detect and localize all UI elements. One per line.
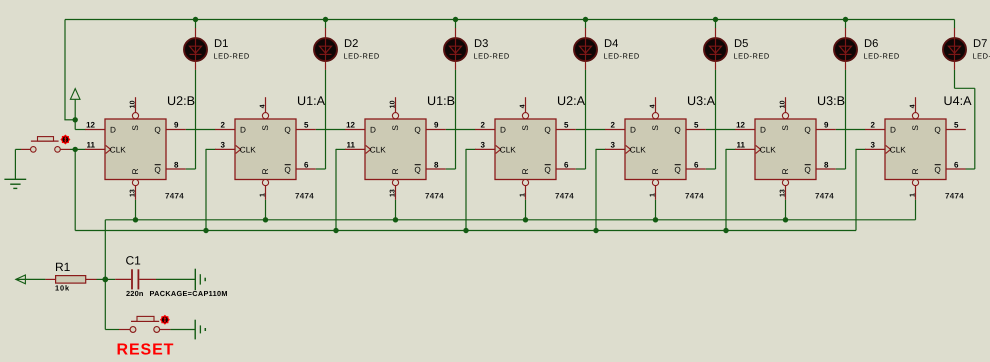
svg-text:U3:A: U3:A (687, 94, 716, 108)
wire clock bus riser to CLK of flip-flop 5 (595, 149, 597, 231)
svg-text:12: 12 (736, 121, 745, 130)
junction top bus at LED D4 (583, 17, 588, 22)
junction clock bus 2 (333, 228, 338, 233)
svg-text:5: 5 (954, 121, 959, 130)
wire Qbar corner to LED column D5 (706, 168, 716, 170)
svg-text:9: 9 (434, 121, 439, 130)
svg-text:D: D (240, 125, 246, 134)
junction RC node (102, 277, 108, 283)
wire Q of flip-flop 2 to D of flip-flop 3 (316, 129, 345, 131)
svg-text:D: D (630, 125, 636, 134)
svg-text:8: 8 (824, 160, 829, 169)
wire RC node to C1 (105, 278, 115, 280)
svg-text:7474: 7474 (165, 191, 184, 200)
wire clock bus riser to CLK of flip-flop 6 (725, 149, 727, 231)
junction clock bus 1 (203, 228, 208, 233)
svg-text:7474: 7474 (295, 191, 314, 200)
svg-text:CLK: CLK (370, 145, 386, 154)
svg-text:2: 2 (611, 121, 616, 130)
wire CLR pin of U1:B to reset bus (395, 200, 397, 220)
svg-text:10: 10 (130, 100, 137, 108)
svg-text:5: 5 (304, 121, 309, 130)
junction reset bus at U1:A (263, 217, 268, 222)
svg-text:D6: D6 (864, 38, 878, 50)
wire Qbar corner to LED column D3 (446, 168, 456, 170)
svg-text:S: S (391, 125, 400, 131)
svg-text:RESET: RESET (117, 342, 175, 359)
push button (clock) (21, 137, 70, 153)
svg-text:D: D (760, 125, 766, 134)
junction top bus at LED D2 (323, 17, 328, 22)
wire button node to pin 11 (70, 148, 86, 150)
svg-text:7474: 7474 (945, 191, 964, 200)
svg-text:7474: 7474 (685, 191, 704, 200)
wire C1 to ground (156, 278, 195, 280)
junction top bus at LED D5 (713, 17, 718, 22)
svg-text:11: 11 (87, 141, 96, 150)
svg-text:6: 6 (954, 160, 959, 169)
input terminal arrow (left) (16, 275, 26, 284)
svg-text:1: 1 (910, 193, 917, 197)
button actuator marker (red) (60, 135, 70, 145)
svg-text:Q: Q (934, 165, 940, 174)
svg-text:Q: Q (804, 125, 810, 134)
svg-text:1: 1 (650, 193, 657, 197)
svg-text:11: 11 (347, 141, 356, 150)
wire LED D5 cathode down to Qbar (715, 70, 717, 169)
svg-text:3: 3 (481, 141, 486, 150)
svg-text:Q: Q (154, 125, 160, 134)
push button (RESET) (119, 316, 170, 332)
svg-text:U2:A: U2:A (557, 94, 586, 108)
ground symbol (C1, rotated) (195, 269, 205, 290)
svg-text:CLK: CLK (760, 145, 776, 154)
junction top bus at LED D1 (193, 17, 198, 22)
flip-flop U2:B (7474) (85, 97, 186, 200)
svg-text:Q: Q (284, 125, 290, 134)
svg-text:220n: 220n (126, 289, 144, 298)
junction reset bus at U2:A (523, 217, 528, 222)
wire top bus to LED D3 (455, 20, 457, 29)
svg-text:U1:A: U1:A (297, 94, 326, 108)
svg-text:Q: Q (414, 165, 420, 174)
svg-text:U1:B: U1:B (427, 94, 455, 108)
svg-text:LED-: LED- (973, 51, 990, 60)
junction reset bus at U1:B (393, 217, 398, 222)
wire ground to button (15, 148, 21, 150)
svg-text:4: 4 (650, 104, 657, 108)
wire top bus to LED D2 (325, 20, 327, 29)
wire RESET button to ground (170, 329, 195, 331)
wire Q of flip-flop 6 to D of flip-flop 7 (836, 129, 865, 131)
svg-text:13: 13 (390, 189, 397, 197)
capacitor C1 (115, 269, 156, 289)
wire clock bus riser to CLK of flip-flop 4 (465, 149, 467, 231)
junction top bus at LED D3 (453, 17, 458, 22)
svg-text:4: 4 (910, 104, 917, 108)
wire Qbar corner to LED column D6 (836, 168, 846, 170)
svg-text:CLK: CLK (890, 145, 906, 154)
svg-text:S: S (261, 125, 270, 131)
wire LED D1 cathode down to Qbar (195, 70, 197, 169)
flip-flop U4:A (7474) (865, 97, 966, 200)
LED D3 (444, 28, 467, 70)
svg-text:CLK: CLK (630, 145, 646, 154)
svg-text:6: 6 (694, 160, 699, 169)
wire node to pin 12 (74, 120, 76, 130)
svg-text:PACKAGE=CAP110M: PACKAGE=CAP110M (150, 289, 228, 298)
svg-text:R: R (781, 168, 790, 174)
svg-text:D3: D3 (474, 38, 488, 50)
flip-flop U1:A (7474) (215, 97, 316, 200)
svg-text:LED-RED: LED-RED (344, 51, 380, 60)
svg-text:Q: Q (544, 125, 550, 134)
svg-text:Q: Q (934, 125, 940, 134)
wire R1 to RC node (97, 278, 106, 280)
wire Qbar corner to LED column D2 (316, 168, 326, 170)
wire Q of flip-flop 5 to D of flip-flop 6 (706, 129, 735, 131)
junction clock bus 3 (463, 228, 468, 233)
svg-text:R1: R1 (55, 260, 71, 274)
wire clock bus riser to CLK of flip-flop 7 (855, 149, 857, 231)
wire Q of flip-flop 4 to D of flip-flop 5 (576, 129, 605, 131)
wire CLR pin of U2:A to reset bus (525, 200, 527, 220)
svg-text:12: 12 (346, 121, 355, 130)
svg-text:CLK: CLK (500, 145, 516, 154)
junction clock bus 5 (723, 228, 728, 233)
svg-text:Q: Q (544, 165, 550, 174)
svg-text:LED-RED: LED-RED (474, 51, 510, 60)
svg-text:4: 4 (260, 104, 267, 108)
svg-text:6: 6 (304, 160, 309, 169)
flip-flop U2:A (7474) (475, 97, 576, 200)
svg-text:Q: Q (674, 165, 680, 174)
svg-text:1: 1 (520, 193, 527, 197)
wire clock bus riser to CLK of flip-flop 2 (205, 149, 207, 231)
svg-text:Q: Q (284, 165, 290, 174)
svg-text:7474: 7474 (425, 191, 444, 200)
wire reset bus drop to RC node (104, 220, 106, 330)
svg-text:13: 13 (130, 189, 137, 197)
svg-text:7474: 7474 (815, 191, 834, 200)
svg-text:C1: C1 (126, 254, 142, 268)
wire top bus left drop to D input node (64, 20, 66, 120)
LED D5 (704, 28, 727, 70)
flip-flop U3:A (7474) (605, 97, 706, 200)
svg-text:12: 12 (86, 121, 95, 130)
wire LED D2 cathode down to Qbar (325, 70, 327, 169)
svg-text:D: D (500, 125, 506, 134)
svg-text:U3:B: U3:B (817, 94, 845, 108)
flip-flop U3:B (7474) (735, 97, 836, 200)
LED D4 (574, 28, 597, 70)
junction top bus at LED D6 (843, 17, 848, 22)
svg-text:U4:A: U4:A (944, 94, 973, 108)
junction clock bus 4 (593, 228, 598, 233)
svg-text:R: R (261, 168, 270, 174)
wire top bus to LED D6 (845, 20, 847, 29)
svg-text:S: S (911, 125, 920, 131)
wire LED D6 cathode down to Qbar (845, 70, 847, 169)
wire clock bus (bus B) (75, 230, 856, 232)
svg-text:S: S (781, 125, 790, 131)
wire CLR pin of U3:B to reset bus (785, 200, 787, 220)
svg-text:D2: D2 (344, 38, 358, 50)
svg-text:D5: D5 (734, 38, 748, 50)
svg-text:LED-RED: LED-RED (214, 51, 250, 60)
svg-text:D: D (370, 125, 376, 134)
svg-text:2: 2 (221, 121, 226, 130)
junction node clock net (73, 147, 78, 152)
power terminal VCC arrow (70, 89, 80, 120)
LED D7 (943, 28, 966, 70)
svg-text:Q: Q (414, 125, 420, 134)
wire Q of flip-flop 1 to D of flip-flop 2 (186, 129, 215, 131)
svg-text:CLK: CLK (110, 145, 126, 154)
wire Qbar corner to LED column D4 (576, 168, 586, 170)
svg-text:LED-RED: LED-RED (864, 51, 900, 60)
svg-text:5: 5 (564, 121, 569, 130)
wire top bus to LED D1 (195, 20, 197, 29)
svg-text:7474: 7474 (555, 191, 574, 200)
svg-text:5: 5 (694, 121, 699, 130)
junction reset bus at U3:B (783, 217, 788, 222)
svg-text:CLK: CLK (240, 145, 256, 154)
wire VCC top bus (65, 19, 955, 21)
svg-text:10: 10 (390, 100, 397, 108)
svg-text:Q: Q (674, 125, 680, 134)
wire LED D7 cathode to Qbar of U4:A (954, 70, 956, 88)
svg-text:R: R (131, 168, 140, 174)
wire RC node to reset button (105, 329, 119, 331)
wire clock node down to clock bus (74, 149, 76, 230)
svg-text:1: 1 (260, 193, 267, 197)
ground symbol (RESET, rotated) (195, 320, 205, 340)
svg-text:3: 3 (871, 141, 876, 150)
svg-text:R: R (391, 168, 400, 174)
LED D2 (314, 28, 337, 70)
svg-text:8: 8 (174, 160, 179, 169)
wire CLR pin of U2:B to reset bus (135, 200, 137, 220)
svg-text:10: 10 (780, 100, 787, 108)
svg-text:S: S (131, 125, 140, 131)
svg-text:S: S (521, 125, 530, 131)
wire CLR pin of U4:A to reset bus (915, 200, 917, 220)
svg-text:R: R (521, 168, 530, 174)
svg-text:D1: D1 (214, 38, 228, 50)
flip-flop U1:B (7474) (345, 97, 446, 200)
svg-text:D7: D7 (973, 38, 987, 50)
wire top bus to LED D5 (715, 20, 717, 29)
svg-text:8: 8 (434, 160, 439, 169)
svg-text:13: 13 (780, 189, 787, 197)
svg-text:R: R (651, 168, 660, 174)
resistor R1 (45, 276, 96, 284)
wire reset bus (bus A) (105, 219, 915, 221)
wire top bus to LED D4 (585, 20, 587, 29)
svg-text:3: 3 (221, 141, 226, 150)
LED D6 (834, 28, 857, 70)
wire clock bus riser to CLK of flip-flop 3 (335, 149, 337, 231)
junction node D input of U2:B (73, 117, 78, 122)
svg-text:2: 2 (481, 121, 486, 130)
wire Qbar corner to LED column D1 (186, 168, 196, 170)
svg-text:S: S (651, 125, 660, 131)
svg-text:D: D (890, 125, 896, 134)
RESET button actuator marker (red) (160, 315, 170, 325)
svg-text:Q: Q (804, 165, 810, 174)
svg-text:Q: Q (154, 165, 160, 174)
svg-text:LED-RED: LED-RED (604, 51, 640, 60)
wire LED D3 cathode down to Qbar (455, 70, 457, 169)
junction reset bus at U3:A (653, 217, 658, 222)
wire CLR pin of U1:A to reset bus (265, 200, 267, 220)
wire CLR pin of U3:A to reset bus (655, 200, 657, 220)
svg-text:4: 4 (520, 104, 527, 108)
LED D1 (184, 28, 207, 70)
junction reset bus at U2:B (133, 217, 138, 222)
svg-text:D: D (110, 125, 116, 134)
svg-text:9: 9 (824, 121, 829, 130)
wire terminal to R1 (16, 278, 46, 280)
wire Q of flip-flop 3 to D of flip-flop 4 (446, 129, 475, 131)
svg-text:9: 9 (174, 121, 179, 130)
svg-text:10k: 10k (55, 283, 70, 292)
ground symbol (clock button) (4, 179, 26, 188)
svg-text:3: 3 (611, 141, 616, 150)
svg-text:2: 2 (871, 121, 876, 130)
wire top bus to LED D7 (954, 20, 956, 29)
svg-text:11: 11 (737, 141, 746, 150)
svg-text:LED-RED: LED-RED (734, 51, 770, 60)
wire LED D4 cathode down to Qbar (585, 70, 587, 169)
svg-text:U2:B: U2:B (167, 94, 195, 108)
svg-text:D4: D4 (604, 38, 618, 50)
svg-text:R: R (911, 168, 920, 174)
svg-text:6: 6 (564, 160, 569, 169)
